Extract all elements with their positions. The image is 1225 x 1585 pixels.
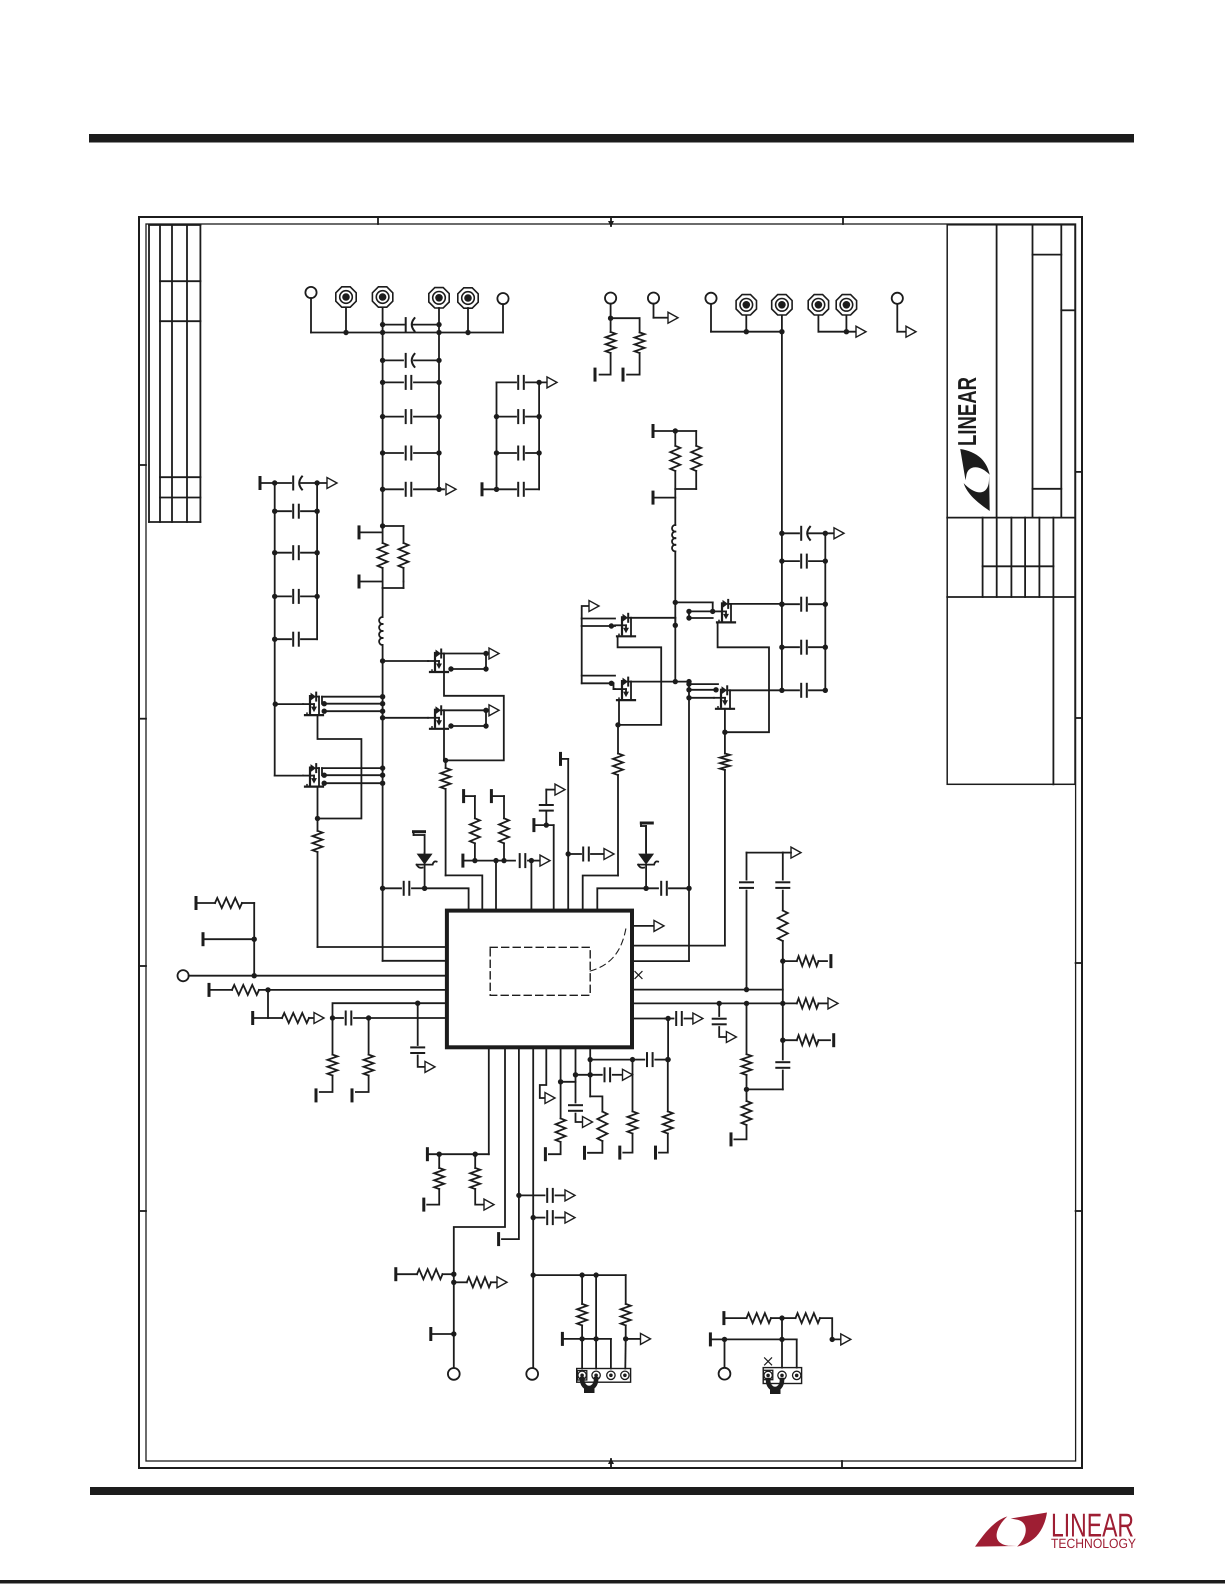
flag row top <box>747 847 802 858</box>
capacitor C30 + flag <box>713 1003 737 1042</box>
resistor R1 <box>378 526 388 588</box>
wire rail L (x=668.1) <box>665 1019 670 1063</box>
wire rail (x=782.8) mid <box>782 961 784 1003</box>
ground stub G5 <box>260 478 275 489</box>
resistor R33 + flag <box>621 1275 651 1344</box>
capacitor C29 <box>776 853 789 911</box>
wire jog to U1 top 2 <box>583 876 618 911</box>
Q4 source wire <box>443 729 448 763</box>
wire rail C (x=496.5) <box>496 382 498 489</box>
transistor Q6 <box>615 678 635 701</box>
capacitor C12 <box>779 555 828 568</box>
ground stub G15 row <box>534 820 554 911</box>
resistor R35 + flag <box>782 1313 851 1345</box>
resistor R29 + gnd <box>585 1112 608 1159</box>
capacitor C7 + flag <box>497 376 558 389</box>
resistor R2 <box>383 543 409 588</box>
Q8 gate bundle <box>686 681 718 700</box>
ground stub G10 <box>209 984 232 995</box>
turret E4 <box>458 288 478 335</box>
border fold tick marks <box>139 217 1082 1468</box>
wire rail H (x=274.7) <box>274 483 276 776</box>
ground stub G6 <box>414 832 425 889</box>
capacitor C2 <box>380 354 442 367</box>
Q5 gate bundle <box>582 619 615 629</box>
net flag TG1 <box>582 601 599 619</box>
transistor Q2 <box>275 764 323 787</box>
diode D1 <box>414 835 437 868</box>
terminal J1 (circle) <box>305 287 316 333</box>
resistor R24 + gnd <box>424 1154 444 1210</box>
capacitor C34 + flag <box>533 1211 575 1224</box>
resistor R26 <box>417 1269 456 1279</box>
ground stub G11 <box>253 990 268 1024</box>
compensation node wire <box>333 1001 447 1019</box>
inductor L1 <box>379 588 382 661</box>
resistor R20 + flag <box>783 998 838 1009</box>
wire rail G (x=825.3) <box>824 533 826 690</box>
resistor R22 + gnd <box>731 1089 752 1145</box>
capacitor C18 <box>272 546 320 559</box>
Q3 source loop wire <box>444 672 504 760</box>
turret E8 <box>836 295 856 335</box>
wire to U1 pin (SENSE2) <box>632 945 725 947</box>
ground stub G2 <box>359 576 383 587</box>
capacitor C27 + flag <box>568 848 614 861</box>
resistor R8 <box>441 760 451 875</box>
capacitor C16 (pol) + flag <box>272 477 337 490</box>
resistor R6 <box>675 446 701 489</box>
wire U1 pin (PGND) <box>488 1047 490 1154</box>
terminal J8 (circle) <box>448 1368 460 1380</box>
jumper JP2 shunt <box>768 1380 782 1394</box>
svg-text:TECHNOLOGY: TECHNOLOGY <box>1051 1536 1136 1551</box>
capacitor C23 row <box>330 1012 447 1025</box>
capacitor C26 + flag <box>540 784 565 828</box>
wire rail A (x=382.6) <box>382 325 384 526</box>
ground stub G7 <box>641 823 652 852</box>
IC U1 body <box>447 911 632 1048</box>
resistor R32 <box>577 1275 587 1342</box>
capacitor C11 (pol) + flag <box>779 527 844 540</box>
jumper JP1 shunt <box>582 1379 596 1393</box>
wire U1 pin (EXTVCC) <box>558 1047 576 1118</box>
transistor Q5 <box>615 614 635 637</box>
ground stub G19 <box>431 1329 457 1340</box>
wire rail I (x=317.1) <box>316 483 318 639</box>
capacitor C20 <box>272 633 317 646</box>
wire into U1 top-left <box>425 888 469 910</box>
Q1 source loop wire <box>318 715 362 818</box>
border top center arrow <box>608 217 614 227</box>
bottom black rule <box>90 1487 1134 1495</box>
capacitor C9 <box>494 447 542 460</box>
terminal J2 (circle) <box>497 293 508 333</box>
capacitor C33 + flag <box>519 1189 575 1202</box>
wire jog to U1 top <box>446 875 483 910</box>
resistor R13 + flag <box>268 1013 324 1024</box>
IC U1 flag pin (PGOOD) <box>632 920 664 931</box>
turret E5 <box>736 295 756 335</box>
Q6 gate bundle <box>582 626 615 689</box>
resistor R16 <box>470 796 480 863</box>
ground stub G13 <box>464 791 475 802</box>
wire rail A lower <box>383 661 447 961</box>
wire rail J (x=689) <box>632 682 692 962</box>
wire U1 pin (VOS1) <box>454 1047 505 1368</box>
inductor L2 <box>672 489 675 602</box>
capacitor C35 + flag <box>569 1047 593 1127</box>
wire U1 pin + flag (SGND) <box>540 1047 555 1103</box>
capacitor C4 <box>380 410 442 423</box>
resistor R7 <box>313 819 323 948</box>
wire JP2 pin feeds <box>782 1318 797 1368</box>
node SW1 junction <box>380 523 404 543</box>
Q5 source loop wire <box>618 637 662 725</box>
Linear Technology logo (red) <box>975 1507 1136 1552</box>
resistor R11 <box>215 898 254 976</box>
capacitor C22 row <box>597 866 689 911</box>
capacitor C17 <box>272 505 320 518</box>
transistor Q7 <box>715 600 735 623</box>
capacitor C10 + gnd <box>482 483 539 496</box>
revision table (rotated) <box>149 225 200 522</box>
resistor R17 <box>499 796 509 863</box>
ITH2 row <box>632 1001 786 1006</box>
sheet border frame <box>139 217 1082 1468</box>
wire to U1 top (ITH2) <box>530 861 532 911</box>
Q7 drain wire <box>731 602 785 607</box>
resistor R19 + gnd <box>783 956 831 967</box>
resistor R31 + gnd <box>656 1060 673 1159</box>
border bottom center arrow <box>608 1458 614 1468</box>
wire rail F (x=781.9) <box>781 332 783 690</box>
wire to U1 top (ITH1) <box>495 861 497 911</box>
capacitor C28 <box>740 853 753 990</box>
jumper JP1 header <box>577 1369 631 1383</box>
resistor R14 + gnd <box>316 1018 338 1101</box>
resistor R4 <box>611 318 645 380</box>
terminal J4 (circle) + flag <box>648 293 678 324</box>
Q2 source wire <box>315 787 320 822</box>
ground stub G21 <box>724 1313 747 1324</box>
turret E6 <box>772 295 792 332</box>
terminal J5 (circle) <box>705 293 716 332</box>
wire JP1 pin1/pin4 stems <box>582 1339 626 1369</box>
resistor R23 + gnd <box>780 1035 834 1046</box>
VFB row wire <box>632 987 783 992</box>
Q4 drain link + flag <box>444 705 499 729</box>
ground stub G14 <box>491 791 504 802</box>
ground row G17 <box>427 1149 488 1160</box>
resistor R18 <box>778 911 788 964</box>
Q1 drain bundle <box>322 694 386 714</box>
capacitor C8 <box>494 410 542 423</box>
wire rail D (x=539.1) <box>538 382 540 489</box>
resistor R5 <box>670 431 680 489</box>
wire rail E lower <box>674 602 676 681</box>
Q7 gate bundle <box>673 600 716 621</box>
terminal J7 (circle) <box>178 970 447 981</box>
resistor R34 <box>747 1313 785 1323</box>
IC U1 dashed pad <box>490 928 626 995</box>
capacitor C6 + flag <box>380 483 456 496</box>
ground stub G4 <box>653 492 675 503</box>
resistor R27 + flag <box>451 1277 507 1288</box>
ground stub G9 <box>203 934 257 945</box>
wire join row <box>747 1088 783 1090</box>
IC U1 NC pin x-mark <box>635 972 642 979</box>
turret E2 <box>372 287 392 325</box>
ground stub G16 <box>561 753 569 764</box>
Q8 source wire <box>722 709 727 735</box>
capacitor C15 <box>779 684 828 697</box>
ground stub G8 <box>196 898 215 909</box>
Q2 drain bundle <box>322 765 386 786</box>
capacitor C14 <box>779 641 828 654</box>
resistor R3 <box>595 316 616 381</box>
capacitor C1 (top, polarized) <box>380 318 442 331</box>
wire rail (x=746.5) mid <box>746 1003 748 1054</box>
ground stub G3 <box>653 426 675 437</box>
wire rail B (x=439) <box>438 325 440 490</box>
resistor R12 <box>232 985 447 995</box>
node SW2 junction <box>673 428 697 446</box>
turret E1 <box>336 287 356 335</box>
top black rule <box>89 134 1134 143</box>
ground stub G12 <box>463 855 475 866</box>
diode D2 <box>638 826 658 868</box>
svg-text:LINEAR: LINEAR <box>952 377 982 446</box>
jumper JP2 header <box>763 1368 801 1384</box>
terminal J10 (circle) <box>719 1339 731 1379</box>
x-mark above JP2 pin1 <box>765 1358 772 1365</box>
resistor R25 + flag <box>470 1154 494 1210</box>
Q6 source wire <box>615 700 620 728</box>
wire to U1 pin (SENSE1) <box>318 946 447 948</box>
wire row to jumper JP1 <box>533 1272 626 1277</box>
transistor Q4 <box>380 706 448 729</box>
capacitor C5 <box>380 447 442 460</box>
Q3 drain link + flag <box>444 648 499 672</box>
Q6 drain wire <box>631 679 692 684</box>
transistor Q8 <box>714 686 734 709</box>
wire JP1 pin2 feed <box>593 1275 598 1342</box>
title block grid <box>947 225 1075 785</box>
resistor R30 + gnd <box>620 1060 638 1159</box>
capacitor C24 + flag <box>411 1003 435 1072</box>
resistor R10 <box>720 732 730 945</box>
capacitor C36 + flag <box>573 1068 633 1081</box>
wire bus VIN left <box>311 330 503 335</box>
ground row G22 <box>710 1334 796 1345</box>
Q7 source loop wire <box>718 623 769 732</box>
terminal J3 (circle) <box>605 293 616 319</box>
wire rail K (x=568.2) <box>566 759 571 911</box>
resistor R28 + gnd <box>545 1118 565 1159</box>
wire bus VIN right <box>711 329 785 334</box>
title block LT logo (rotated) <box>952 377 990 511</box>
wire U1 pin (ION) <box>499 1047 522 1244</box>
capacitor C31 <box>776 1003 789 1089</box>
ground stub G1 <box>359 527 383 538</box>
ground row G20 <box>562 1333 611 1368</box>
capacitor C3 <box>380 376 442 389</box>
resistor R15 + gnd <box>352 1018 374 1101</box>
transistor Q3 <box>380 650 448 673</box>
resistor R21 <box>742 1054 752 1092</box>
capacitor C13 <box>779 598 828 611</box>
terminal J6 (circle) + flag <box>892 293 916 338</box>
INTVCC cap row <box>590 1053 670 1066</box>
turret E3 <box>429 288 449 325</box>
turret E7 <box>808 295 828 332</box>
Q5 drain wire <box>631 618 678 628</box>
page bottom edge line <box>0 1580 1225 1584</box>
capacitor C19 <box>272 590 320 603</box>
transistor Q1 <box>273 693 323 716</box>
wire U1 pin (INTVCC) <box>588 1047 603 1111</box>
ground stub G18 <box>396 1269 417 1280</box>
terminal J9 (circle) <box>526 1368 538 1380</box>
capacitor C21 row <box>380 882 427 895</box>
Q8 drain wire <box>730 689 782 691</box>
resistor R9 <box>613 725 623 876</box>
RT row cap C32 + flag <box>632 1012 703 1025</box>
ITH row cap C25 + flag <box>475 854 550 867</box>
wire U1 pin (VOS2) <box>531 1047 536 1368</box>
wire bus aux + flag <box>818 326 866 337</box>
